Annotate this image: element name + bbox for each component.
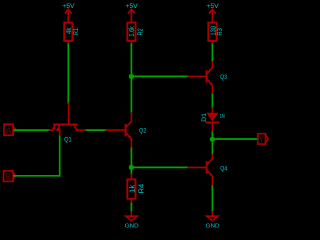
wire input B horizontal [14,175,60,177]
Q1 collector diagonal [74,125,77,130]
Q1 emitter 2 pin [57,130,60,135]
Q4 collector diagonal [208,158,213,164]
Q1 base pin [68,103,70,123]
Q2 emitter diagonal [127,133,132,139]
svg-text:1N: 1N [219,114,225,120]
junction node output [210,137,215,142]
wire R2 down to Q2 collector [130,44,132,113]
power symbol +5V (column 2) [125,3,138,23]
wire Q3 emitter to diode D1 [211,94,213,108]
svg-text:1.6k: 1.6k [129,26,136,37]
svg-text:A: A [6,125,12,135]
svg-text:B: B [6,171,12,181]
wire R1 to Q1 base [67,44,69,103]
Q4 base pin [188,166,206,168]
wire R3 down to Q3 collector [211,44,213,60]
Q3 collector pin [211,60,213,67]
Q4 collector pin [211,155,213,159]
Q2 collector diagonal [127,121,132,127]
svg-text:R2: R2 [138,28,145,35]
transistor Q3 (NPN) [188,60,212,94]
Q1 emitter 2 diagonal [57,125,60,130]
Q4 emitter diagonal [208,171,213,177]
svg-text:GND: GND [125,224,139,230]
svg-text:1k: 1k [130,184,137,193]
output port Y [258,134,269,144]
Q4 emitter arrowhead [209,173,212,176]
transistor Q2 (NPN phase splitter) [106,113,131,148]
Q2 emitter pin [130,139,132,148]
svg-text:D1: D1 [201,113,208,122]
Q1 emitter 1 diagonal [52,125,55,130]
diode D1 [206,108,218,132]
Q3 base pin [188,75,206,77]
Q4 emitter pin [211,176,213,186]
Q2 emitter arrowhead [128,136,131,139]
Q2 base pin [106,129,125,131]
resistor R3 body [208,23,216,45]
ground symbol under Q4 [207,212,218,221]
Q1 emitter 2 arrowhead [57,127,60,130]
Q2 base bar [125,125,127,136]
svg-text:R4: R4 [139,184,146,194]
Q1 emitter 1 pin [49,129,52,131]
svg-text:GND: GND [206,224,220,230]
Q2 collector pin [130,113,132,121]
D1 cathode bar [206,122,218,124]
wire Q1 collector to Q2 base [87,129,107,131]
Q4 base bar [206,162,208,173]
wire input A to Q1 emitter 1 [14,129,49,131]
power symbol +5V (column 3) [206,3,219,23]
D1 cathode pin [211,123,213,133]
Q1 collector pin [77,129,87,131]
input port B [4,171,16,182]
resistor R2 body [127,23,135,45]
svg-text:Q3: Q3 [220,74,227,81]
Q3 base bar [206,71,208,82]
Q3 emitter pin [211,85,213,94]
Q3 collector diagonal [208,67,213,73]
wire junction to Q4 base [131,166,188,168]
wire D1 to output node [211,132,213,154]
wire Q2 emitter down to R4 [130,148,132,174]
svg-text:Q4: Q4 [220,166,227,173]
ground symbol under R4 [126,212,137,221]
transistor Q4 (NPN output pull-down) [188,155,212,187]
resistor R1 body [64,23,72,45]
Q1 emitter 1 arrowhead [52,127,55,130]
Q3 emitter arrowhead [209,82,212,85]
Q3 emitter diagonal [208,80,213,86]
D1 anode pin [211,108,213,113]
svg-text:Y: Y [259,134,264,144]
resistor R4 body [127,175,135,204]
input port A [4,124,16,135]
D1 triangle [206,113,218,122]
wire junction to Q3 base [131,75,188,77]
svg-text:R3: R3 [217,28,224,35]
wire R4 to ground [130,204,132,212]
wire output node to port Y [212,138,258,140]
wire Q4 emitter to ground [211,186,213,212]
junction node Q2 emitter / Q4 base [129,165,134,170]
svg-text:Q2: Q2 [139,128,147,135]
wire input B vertical up to Q1 emitter 2 [59,135,61,176]
svg-text:R1: R1 [73,28,80,35]
transistor Q1 (dual-emitter NPN) [49,103,86,135]
svg-text:Q1: Q1 [64,136,72,143]
Q1 base bar [54,124,77,126]
svg-text:4k: 4k [66,27,73,34]
junction node R2/Q3 base [129,74,134,79]
power symbol +5V (column 1) [62,3,75,23]
